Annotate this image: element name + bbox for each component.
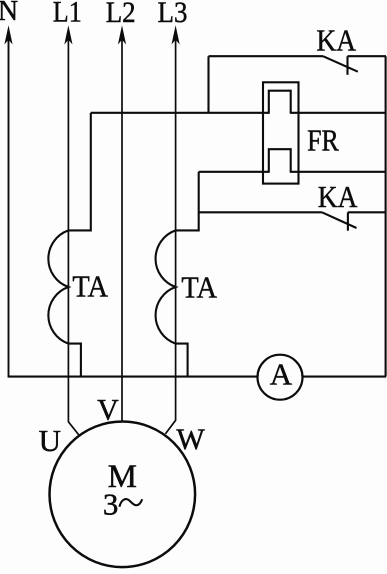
thermal relay FR enclosure box [263, 82, 299, 183]
ammeter A (instrument circle) [258, 355, 303, 400]
svg-text:V: V [97, 394, 119, 427]
svg-text:N: N [0, 0, 18, 27]
wire: TA2 secondary top to FR heater 2 [199, 171, 269, 173]
svg-text:L3: L3 [158, 0, 188, 29]
wire: FR heater 2 to right rail [291, 171, 386, 173]
line N (neutral supply line with arrow) [4, 25, 12, 376]
svg-text:KA: KA [318, 179, 358, 214]
wire: bottom return row (left of ammeter) [8, 376, 258, 378]
svg-text:W: W [176, 423, 205, 456]
svg-text:TA: TA [72, 269, 108, 304]
motor M (3-phase motor circle) [50, 422, 196, 568]
svg-text:TA: TA [181, 270, 217, 305]
line L2 (phase line with arrow, runs to motor terminal V) [118, 25, 126, 421]
wire: right rail [385, 56, 387, 376]
current transformer TA1 (secondary winding on line L1) [48, 113, 90, 377]
svg-text:FR: FR [307, 122, 339, 157]
heater element FR phase 1 (loop) [269, 91, 291, 114]
wire: TA1 secondary top to FR heater 1 and right rail [91, 112, 269, 114]
svg-text:A: A [270, 356, 293, 391]
svg-text:U: U [39, 423, 61, 458]
tilde of 3~ [119, 499, 142, 507]
line L3 (phase line with arrow, runs to motor terminal W) [165, 25, 179, 434]
wire: FR heater 1 to right rail [291, 112, 386, 114]
contact KA (bottom, relay contact) [199, 212, 386, 230]
wire: junction riser to top KA contact row [207, 56, 209, 113]
svg-text:KA: KA [316, 23, 356, 58]
current transformer TA2 (secondary winding on line L3) [156, 172, 199, 377]
heater element FR phase 2 (loop) [269, 149, 291, 173]
svg-text:L1: L1 [53, 0, 82, 29]
svg-text:L2: L2 [106, 0, 136, 29]
svg-text:3: 3 [103, 487, 119, 522]
line L1 (phase line with arrow, runs to motor terminal U) [64, 25, 79, 435]
contact KA (top, relay contact) [209, 56, 387, 75]
wire: bottom return row (right of ammeter) [303, 376, 387, 378]
